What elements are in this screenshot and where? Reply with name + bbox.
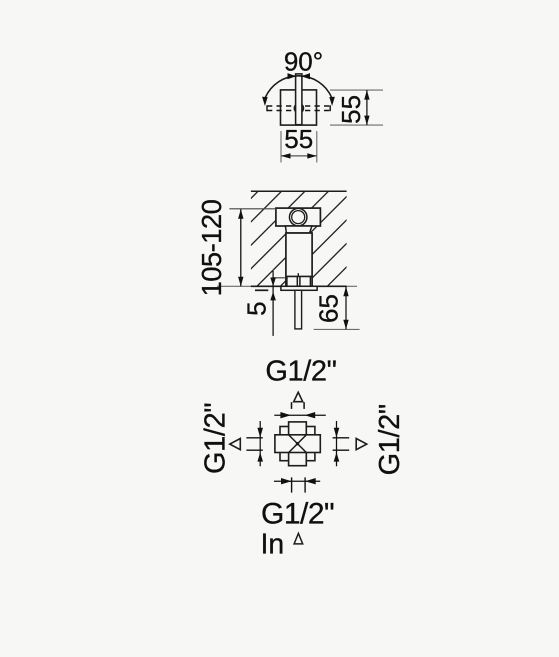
svg-text:5: 5 bbox=[242, 301, 272, 315]
svg-text:G1/2": G1/2" bbox=[261, 498, 334, 531]
svg-text:65: 65 bbox=[314, 294, 344, 323]
svg-text:90°: 90° bbox=[284, 47, 323, 77]
svg-text:In: In bbox=[261, 529, 285, 561]
svg-text:G1/2": G1/2" bbox=[200, 403, 232, 474]
svg-text:G1/2": G1/2" bbox=[374, 404, 406, 475]
svg-text:105-120: 105-120 bbox=[196, 199, 227, 296]
svg-text:55: 55 bbox=[336, 95, 366, 124]
svg-text:55: 55 bbox=[284, 124, 313, 154]
svg-text:G1/2": G1/2" bbox=[265, 355, 336, 387]
